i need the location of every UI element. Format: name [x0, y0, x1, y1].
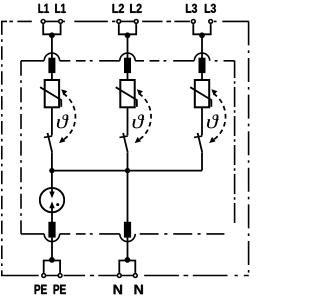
- terminal L2 (right circle): [134, 20, 138, 24]
- outer enclosure border, top edge: [1, 20, 249, 22]
- terminal label PE (right): [54, 285, 66, 294]
- wire: L1 down to terminal block: [51, 35, 53, 58]
- varistor RV (L1) diagonal stroke with foot: [40, 87, 61, 107]
- wire: N block down to N terminals: [127, 238, 129, 261]
- disconnector switch blade (L2): [123, 133, 128, 153]
- arrowhead to switch (L1): [59, 137, 65, 143]
- terminal labels L2 L2: [113, 4, 124, 13]
- terminal label N (right): [135, 285, 143, 294]
- disconnector switch fixed contact tick (L2): [120, 136, 128, 137]
- terminal block (black) PE bottom: [48, 222, 55, 238]
- terminal N (left circle): [117, 274, 121, 278]
- inner module border, right edge: [234, 61, 236, 223]
- arrowhead to switch (L3): [209, 137, 215, 143]
- junction node L3: [199, 32, 205, 38]
- terminal block (black) L3 top: [199, 58, 206, 73]
- varistor RV (L3): [195, 80, 209, 107]
- arrowhead to varistor (L2): [137, 89, 143, 95]
- temperature symbol theta (L3): [207, 114, 219, 128]
- wire: bus down to N block: [127, 171, 129, 222]
- spark gap trigger dot: [56, 203, 59, 206]
- terminal block (black) L1 top: [48, 58, 55, 73]
- inner module border, top edge runs: [21, 60, 235, 62]
- terminal L2 (left circle): [117, 20, 121, 24]
- inner module border, left edge: [20, 61, 22, 234]
- outer enclosure border, left edge: [1, 21, 3, 275]
- junction node PE: [49, 257, 55, 263]
- wire: switch to bus (L2): [127, 153, 129, 171]
- wire: block to varistor L2: [127, 73, 129, 80]
- wire: block to varistor L3: [201, 73, 203, 80]
- terminal labels L1 L1: [39, 4, 49, 13]
- junction node N: [125, 257, 131, 263]
- wire: varistor to disconnector switch (L3): [201, 107, 203, 135]
- terminal label N (left): [114, 285, 122, 294]
- outer enclosure border, bottom edge: [1, 275, 249, 277]
- wire: N double-terminal link bar: [119, 261, 135, 273]
- enclosure border hop over L2 conductor (top): [120, 53, 135, 61]
- wire: spark gap to PE block: [51, 212, 53, 222]
- arrowhead to switch (L2): [135, 137, 141, 143]
- terminal L1 (left circle): [41, 20, 45, 24]
- wire: L3 double-terminal link bar: [193, 24, 210, 34]
- terminal L3 (left circle): [191, 20, 195, 24]
- wire: block to varistor L1: [51, 73, 53, 80]
- terminal N (right circle): [133, 274, 137, 278]
- enclosure border hop over L3 conductor (top): [194, 53, 209, 61]
- wire: L2 down to terminal block: [127, 35, 129, 58]
- wire: PE block down to PE terminals: [51, 238, 53, 261]
- varistor RV (L2): [120, 80, 134, 107]
- junction node bus/L1: [49, 168, 54, 173]
- terminal PE (right circle): [58, 274, 62, 278]
- arrowhead to varistor (L3): [211, 89, 217, 95]
- disconnector switch blade (L1): [48, 133, 53, 153]
- varistor RV (L1): [45, 80, 59, 107]
- arrowhead to varistor (L1): [61, 89, 67, 95]
- spark gap lower electrode arrow: [51, 208, 53, 212]
- disconnector switch fixed contact tick (L3): [194, 136, 202, 137]
- thermal disconnector action arc (L3): [213, 94, 226, 141]
- terminal block (black) L2 top: [124, 58, 131, 73]
- junction node bus/L2: [125, 168, 130, 173]
- wire: L2 double-terminal link bar: [119, 24, 136, 34]
- junction node L1: [49, 32, 55, 38]
- wire: L3 down to terminal block: [201, 35, 203, 58]
- wire: switch to bus (L1): [51, 153, 53, 171]
- wire: common bus L1-L2-L3 after disconnectors: [52, 170, 202, 172]
- varistor RV (L3) diagonal stroke with foot: [190, 87, 211, 107]
- disconnector switch fixed contact tick (L1): [44, 136, 52, 137]
- temperature symbol theta (L2): [133, 114, 145, 128]
- disconnector switch blade (L3): [198, 133, 203, 153]
- wire: L1 double-terminal link bar: [43, 24, 60, 34]
- wire: bus to spark gap: [51, 171, 53, 188]
- spark gap (N-PE) circle: [40, 188, 64, 212]
- terminal L1 (right circle): [59, 20, 63, 24]
- terminal PE (left circle): [42, 274, 46, 278]
- junction node L2: [125, 32, 131, 38]
- wire: switch to bus (L3): [201, 153, 203, 171]
- enclosure border hop over L1 conductor (top): [44, 53, 59, 61]
- wire: PE double-terminal link bar: [44, 261, 60, 273]
- outer enclosure border, right edge: [248, 21, 250, 275]
- terminal block (black) N bottom: [124, 222, 131, 238]
- enclosure border hop over N conductor (bottom): [120, 234, 135, 242]
- terminal L3 (right circle): [209, 20, 213, 24]
- wire: varistor to disconnector switch (L2): [127, 107, 129, 135]
- terminal labels L3 L3: [186, 4, 197, 13]
- varistor RV (L2) diagonal stroke with foot: [116, 87, 137, 107]
- temperature symbol theta (L1): [57, 114, 69, 128]
- terminal label PE (left): [35, 285, 47, 294]
- thermal disconnector action arc (L2): [138, 94, 151, 141]
- inner module border, bottom edge runs: [21, 233, 229, 235]
- enclosure border hop over PE conductor (bottom): [44, 234, 59, 242]
- spark gap upper electrode arrow: [51, 188, 53, 192]
- thermal disconnector action arc (L1): [62, 94, 75, 141]
- wire: varistor to disconnector switch (L1): [51, 107, 53, 135]
